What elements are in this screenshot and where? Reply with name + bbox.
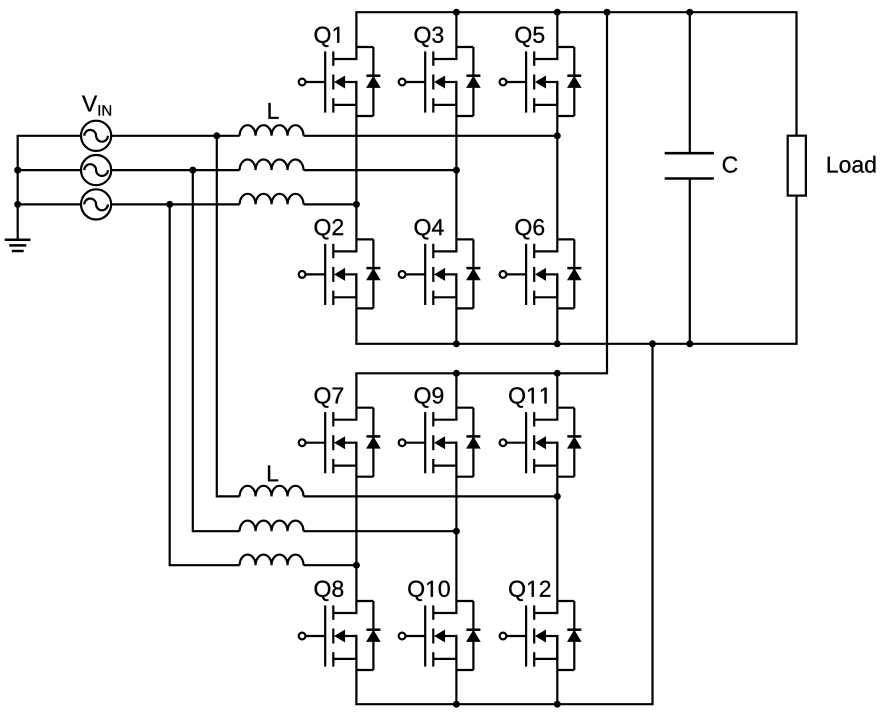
label Q7	[315, 387, 344, 407]
wire leg 1 source of Q2	[355, 274, 357, 343]
transistor Q9	[399, 408, 481, 477]
junction DC- bus / leg 2	[453, 340, 460, 347]
wire leg 2 drain of Q3	[455, 12, 457, 59]
ac source V_IN phase C	[81, 189, 111, 219]
ac source V_IN phase B	[81, 155, 111, 185]
junction DC- bus / capacitor	[686, 340, 693, 347]
inductor L phase A (bottom bridge)	[240, 486, 304, 497]
label Q1	[315, 27, 340, 47]
wire leg 4 drain of Q7	[355, 373, 357, 419]
label L (bottom inductors)	[268, 466, 278, 482]
wire left input bus	[17, 136, 19, 240]
wire load top lead	[795, 12, 797, 136]
label Q2	[315, 219, 344, 239]
wire capacitor bottom lead	[689, 179, 691, 344]
wire phase A inductor to leg 3	[304, 135, 558, 137]
junction phase C tap	[166, 201, 173, 208]
wire top bridge DC- bus	[355, 343, 797, 345]
junction lower phase B / leg 2	[453, 528, 460, 535]
wire leg 6 midpoint	[556, 443, 558, 613]
junction phase C / leg 1	[353, 201, 360, 208]
transistor Q10	[399, 601, 481, 670]
label Load	[828, 156, 876, 173]
label Q8	[315, 581, 344, 601]
ground	[5, 240, 31, 251]
junction bottom bridge top bus / leg 2	[453, 370, 460, 377]
wire lower phase C inductor to leg 1	[304, 564, 357, 566]
junction DC- bus / leg 3	[554, 340, 561, 347]
wire lower phase B inductor to leg 2	[304, 530, 457, 532]
wire leg 2 midpoint	[455, 82, 457, 251]
wire phase C source left lead	[18, 203, 81, 205]
junction bottom bus / leg 2	[453, 701, 460, 708]
wire DC+ riser	[355, 12, 607, 373]
transistor Q11	[500, 408, 582, 477]
transistor Q5	[500, 47, 582, 116]
wire phase B inductor to leg 2	[304, 169, 457, 171]
wire leg 2 source of Q4	[455, 274, 457, 343]
wire leg 5 source of Q10	[455, 636, 457, 704]
transistor Q1	[299, 47, 381, 116]
junction phase B / leg 2	[453, 167, 460, 174]
wire phase C tap to lower inductor	[170, 204, 240, 565]
transistor Q12	[500, 601, 582, 670]
label C	[723, 156, 738, 172]
wire leg 3 midpoint	[556, 82, 558, 251]
wire phase B tap to lower inductor	[193, 170, 240, 531]
wire leg 3 source of Q6	[556, 274, 558, 343]
label Q5	[516, 27, 545, 47]
junction bottom bus / leg 3	[554, 701, 561, 708]
wire leg 1 midpoint	[355, 82, 357, 251]
label Q12	[509, 581, 550, 601]
wire phase B source left lead	[18, 169, 81, 171]
junction phase B tap	[189, 167, 196, 174]
ac source V_IN phase A	[81, 121, 111, 151]
junction DC- bus / return riser	[649, 340, 656, 347]
wire phase A source left lead	[17, 135, 81, 137]
junction lower phase C / leg 1	[353, 562, 360, 569]
wire phase A tap to lower inductor	[217, 136, 240, 497]
transistor Q7	[299, 408, 381, 477]
transistor Q3	[399, 47, 481, 116]
inductor L phase A (top bridge)	[240, 125, 304, 136]
wire phase C inductor to leg 1	[304, 203, 357, 205]
wire leg 6 drain of Q11	[556, 373, 558, 419]
junction bottom bridge top bus / leg 3	[554, 370, 561, 377]
inductor L phase B (top bridge)	[240, 160, 304, 171]
label V_IN	[82, 96, 111, 116]
junction lower phase A / leg 3	[554, 493, 561, 500]
wire leg 1 drain of Q1	[355, 12, 357, 59]
wire capacitor top lead	[689, 12, 691, 153]
capacitor C	[665, 153, 714, 178]
wire phase A to inductor	[111, 135, 239, 137]
junction phase A tap	[213, 132, 220, 139]
junction left bus / phase C	[14, 201, 21, 208]
label Q11	[509, 387, 546, 407]
wire leg 3 drain of Q5	[556, 12, 558, 59]
label Q4	[415, 219, 444, 239]
wire leg 4 source of Q8	[355, 636, 357, 704]
inductor L phase B (bottom bridge)	[240, 521, 304, 532]
transistor Q2	[299, 239, 381, 308]
wire leg 5 drain of Q9	[455, 373, 457, 419]
wire leg 4 midpoint	[355, 443, 357, 613]
label Q10	[408, 581, 449, 601]
transistor Q8	[299, 601, 381, 670]
junction top bus / leg 2	[453, 9, 460, 16]
inductor L phase C (bottom bridge)	[240, 555, 304, 566]
wire load bottom lead	[795, 196, 797, 344]
wire DC- return riser	[355, 344, 652, 704]
inductor L phase C (top bridge)	[240, 194, 304, 205]
label Q9	[415, 387, 444, 407]
label L (top inductors)	[269, 103, 279, 119]
label Q6	[516, 219, 545, 239]
label Q3	[415, 27, 444, 47]
wire phase C to inductor	[111, 203, 239, 205]
wire top DC+ bus	[355, 11, 797, 13]
junction top bus / capacitor	[686, 9, 693, 16]
junction top bus / DC+ drop	[604, 9, 611, 16]
transistor Q6	[500, 239, 582, 308]
resistor Load	[788, 136, 806, 196]
wire phase B to inductor	[111, 169, 239, 171]
wire leg 6 source of Q12	[556, 636, 558, 704]
junction top bus / leg 3	[554, 9, 561, 16]
wire leg 5 midpoint	[455, 443, 457, 613]
transistor Q4	[399, 239, 481, 308]
junction phase A / leg 3	[554, 132, 561, 139]
wire lower phase A inductor to leg 3	[304, 495, 558, 497]
junction left bus / phase B	[14, 167, 21, 174]
